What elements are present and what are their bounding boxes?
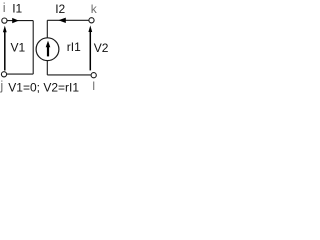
- svg-text:rI1: rI1: [67, 40, 81, 54]
- wire middle branch lower: [46, 61, 48, 75]
- svg-text:I2: I2: [55, 2, 65, 16]
- svg-text:V1: V1: [11, 41, 26, 55]
- svg-text:V2: V2: [94, 41, 109, 55]
- node l: [91, 73, 96, 78]
- source arrow (points up): [46, 41, 51, 57]
- node j: [1, 72, 6, 77]
- background: [0, 0, 118, 100]
- svg-text:i: i: [3, 0, 6, 15]
- wire bottom-left to node j: [7, 73, 33, 75]
- wire middle branch upper: [46, 20, 48, 37]
- voltage arrow V1 (points up toward i): [3, 26, 7, 71]
- node k: [89, 18, 94, 23]
- svg-text:j: j: [0, 78, 3, 93]
- wire bottom-right to node l: [47, 74, 91, 76]
- wire top-left from node i: [7, 20, 33, 22]
- svg-text:I1: I1: [12, 2, 22, 16]
- wire top-right from branch to node k: [47, 19, 89, 21]
- controlled source circle: [36, 38, 59, 61]
- svg-text:V1=0; V2=rI1: V1=0; V2=rI1: [8, 81, 79, 95]
- voltage arrow V2 (points up toward k): [88, 25, 92, 70]
- node i: [2, 18, 7, 23]
- svg-text:l: l: [92, 79, 95, 93]
- current arrow I1: [12, 18, 19, 23]
- wire left-loop right side: [32, 21, 34, 75]
- current arrow I2 (points left): [58, 18, 65, 23]
- svg-text:k: k: [91, 2, 98, 16]
